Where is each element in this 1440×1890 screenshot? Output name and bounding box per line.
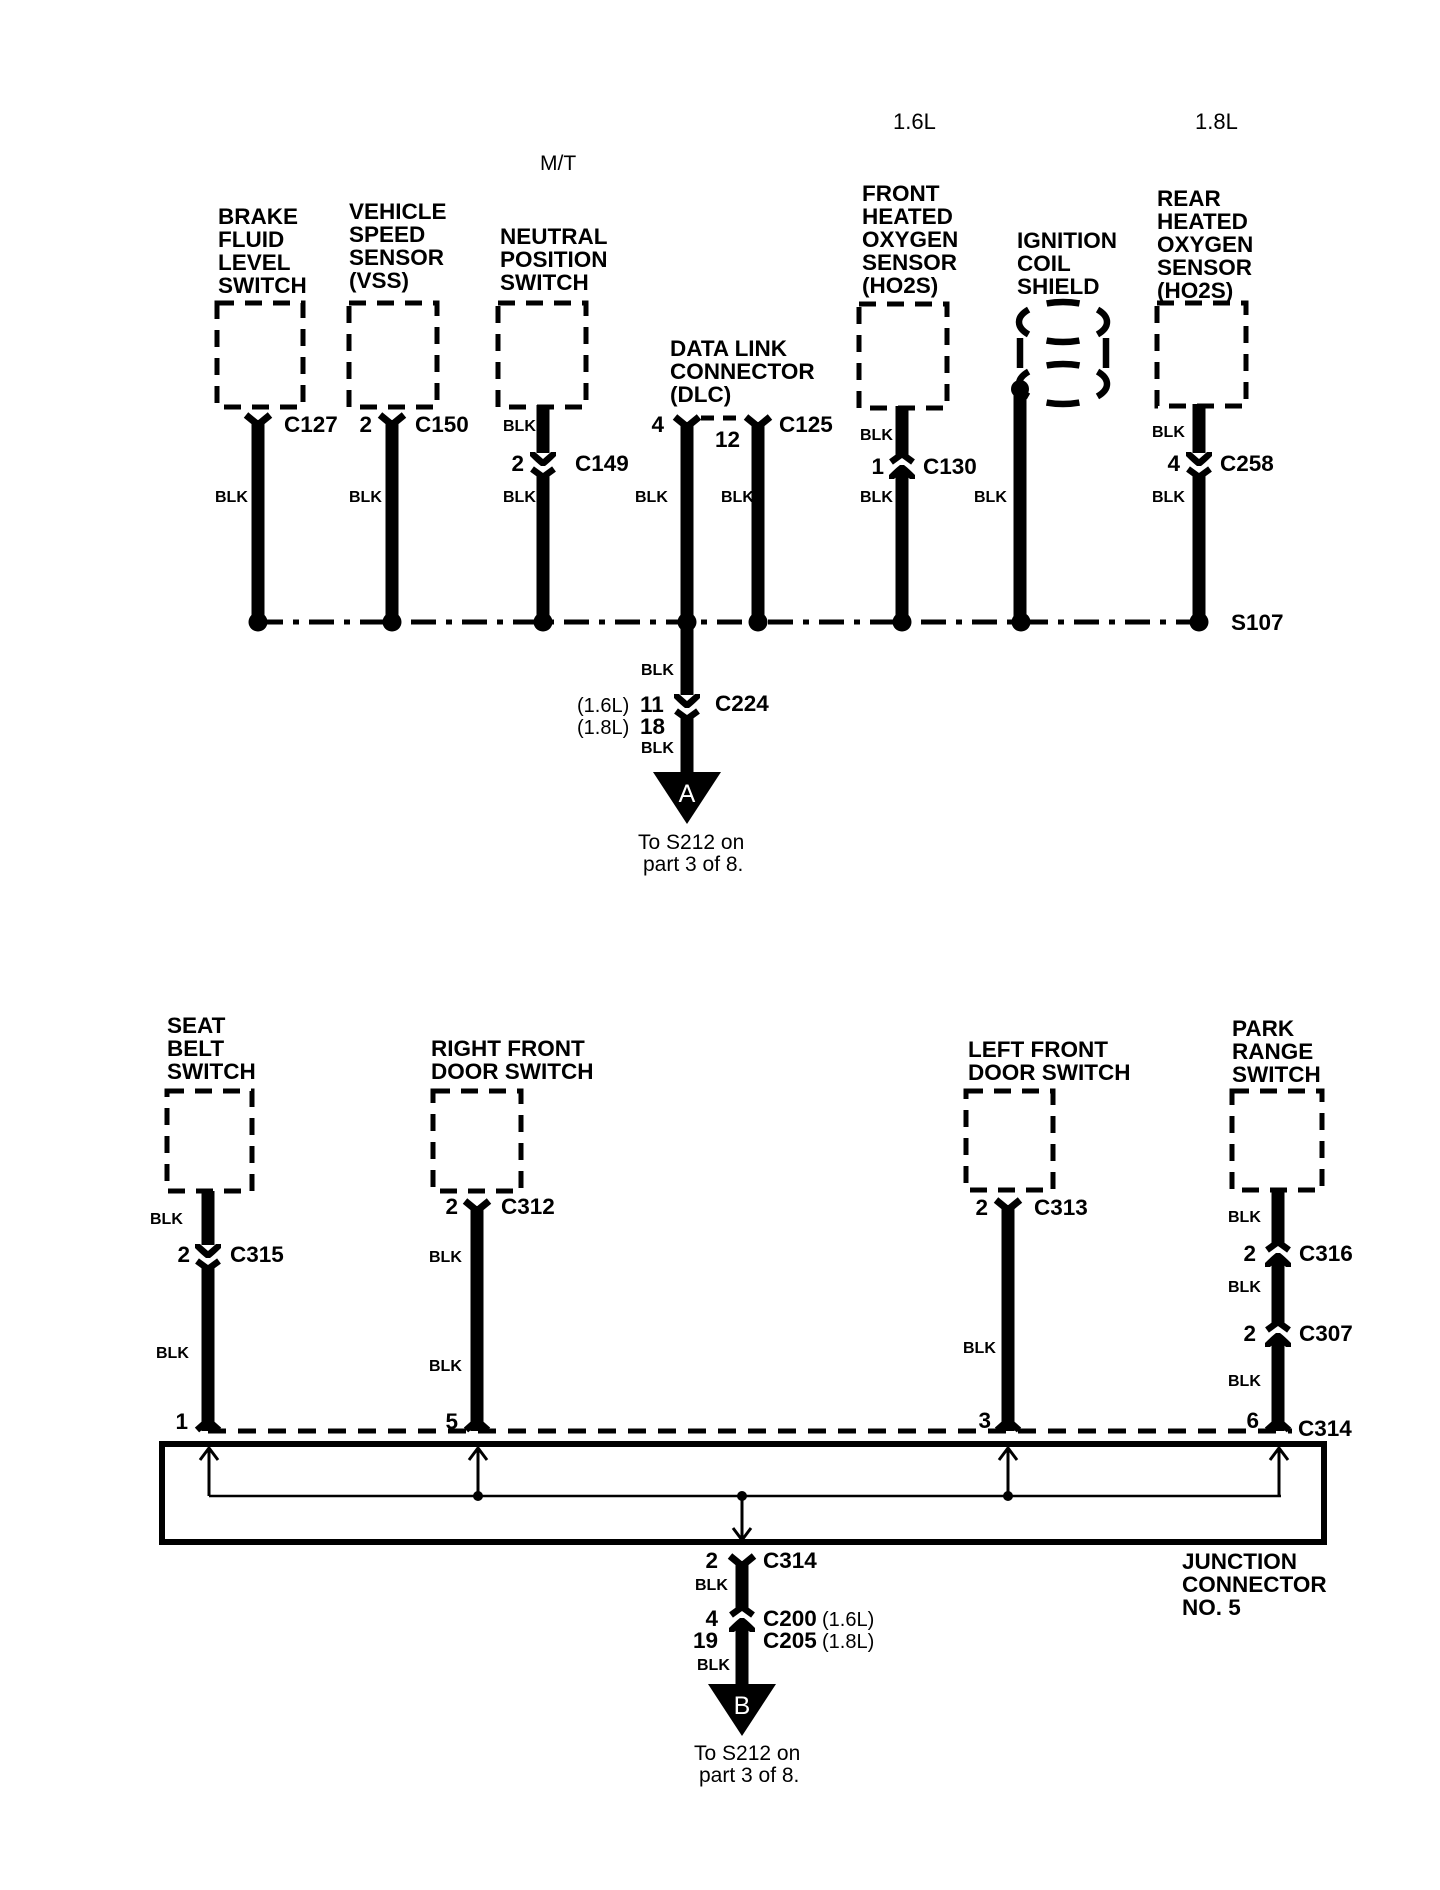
svg-text:1.8L: 1.8L [1195,109,1238,134]
svg-text:FLUID: FLUID [218,227,284,252]
svg-text:SWITCH: SWITCH [1232,1062,1321,1087]
svg-text:RANGE: RANGE [1232,1039,1313,1064]
svg-text:B: B [734,1692,751,1720]
svg-text:BLK: BLK [1228,1209,1261,1226]
svg-text:PARK: PARK [1232,1016,1295,1041]
svg-text:BLK: BLK [974,489,1007,506]
svg-text:12: 12 [715,427,740,452]
svg-text:2: 2 [177,1242,190,1267]
svg-text:2: 2 [359,412,372,437]
svg-text:BLK: BLK [503,489,536,506]
svg-text:(1.8L): (1.8L) [577,717,629,739]
svg-text:BLK: BLK [215,489,248,506]
svg-text:OXYGEN: OXYGEN [862,227,958,252]
svg-text:C313: C313 [1034,1195,1088,1220]
svg-text:CONNECTOR: CONNECTOR [670,359,815,384]
svg-text:C314: C314 [763,1548,817,1573]
svg-text:2: 2 [705,1548,718,1573]
svg-text:To S212 on: To S212 on [638,831,744,854]
svg-text:BLK: BLK [721,489,754,506]
svg-text:BLK: BLK [641,740,674,757]
svg-text:2: 2 [445,1194,458,1219]
svg-text:DOOR SWITCH: DOOR SWITCH [431,1059,594,1084]
svg-text:BLK: BLK [860,489,893,506]
svg-text:2: 2 [975,1195,988,1220]
svg-text:BLK: BLK [1228,1279,1261,1296]
svg-text:OXYGEN: OXYGEN [1157,232,1253,257]
svg-text:(HO2S): (HO2S) [1157,278,1233,303]
svg-text:SWITCH: SWITCH [167,1059,256,1084]
svg-text:SWITCH: SWITCH [500,270,589,295]
svg-text:HEATED: HEATED [862,204,953,229]
svg-text:19: 19 [693,1628,718,1653]
svg-text:BLK: BLK [429,1358,462,1375]
svg-text:BLK: BLK [349,489,382,506]
svg-text:JUNCTION: JUNCTION [1182,1549,1297,1574]
svg-text:SEAT: SEAT [167,1013,226,1038]
svg-text:DATA LINK: DATA LINK [670,336,788,361]
svg-text:BLK: BLK [695,1577,728,1594]
svg-text:C149: C149 [575,451,629,476]
svg-text:BLK: BLK [860,427,893,444]
svg-text:C125: C125 [779,412,833,437]
svg-text:part 3 of 8.: part 3 of 8. [699,1764,799,1787]
svg-text:C205: C205 [763,1628,817,1653]
svg-text:REAR: REAR [1157,186,1221,211]
svg-text:HEATED: HEATED [1157,209,1248,234]
svg-text:C312: C312 [501,1194,555,1219]
svg-text:SWITCH: SWITCH [218,273,307,298]
svg-text:BLK: BLK [635,489,668,506]
svg-text:C127: C127 [284,412,338,437]
svg-text:SPEED: SPEED [349,222,425,247]
svg-text:M/T: M/T [540,152,576,175]
svg-text:BLK: BLK [641,662,674,679]
svg-text:IGNITION: IGNITION [1017,228,1117,253]
svg-text:C316: C316 [1299,1241,1353,1266]
svg-text:C258: C258 [1220,451,1274,476]
svg-text:VEHICLE: VEHICLE [349,199,447,224]
svg-text:C224: C224 [715,691,769,716]
svg-text:SENSOR: SENSOR [349,245,444,270]
svg-text:CONNECTOR: CONNECTOR [1182,1572,1327,1597]
svg-text:NO. 5: NO. 5 [1182,1595,1241,1620]
svg-text:BLK: BLK [1228,1373,1261,1390]
svg-text:(1.6L): (1.6L) [577,695,629,717]
svg-text:A: A [679,780,696,808]
svg-text:BLK: BLK [963,1340,996,1357]
svg-text:BELT: BELT [167,1036,224,1061]
svg-text:4: 4 [651,412,664,437]
svg-text:C130: C130 [923,454,977,479]
svg-text:POSITION: POSITION [500,247,608,272]
svg-text:BLK: BLK [156,1345,189,1362]
svg-text:LEVEL: LEVEL [218,250,291,275]
svg-text:BLK: BLK [1152,424,1185,441]
svg-text:18: 18 [640,714,665,739]
svg-text:C150: C150 [415,412,469,437]
svg-text:SHIELD: SHIELD [1017,274,1100,299]
svg-text:(DLC): (DLC) [670,382,731,407]
svg-text:LEFT FRONT: LEFT FRONT [968,1037,1108,1062]
svg-text:2: 2 [1243,1321,1256,1346]
svg-text:BLK: BLK [697,1657,730,1674]
svg-text:1.6L: 1.6L [893,109,936,134]
svg-text:1: 1 [871,454,884,479]
svg-text:FRONT: FRONT [862,181,940,206]
svg-text:part 3 of 8.: part 3 of 8. [643,853,743,876]
svg-text:1: 1 [175,1409,188,1434]
svg-text:BLK: BLK [1152,489,1185,506]
svg-text:DOOR SWITCH: DOOR SWITCH [968,1060,1131,1085]
svg-text:C314: C314 [1298,1416,1352,1441]
svg-text:C307: C307 [1299,1321,1353,1346]
svg-text:2: 2 [1243,1241,1256,1266]
svg-text:2: 2 [511,451,524,476]
svg-text:COIL: COIL [1017,251,1071,276]
svg-text:RIGHT FRONT: RIGHT FRONT [431,1036,585,1061]
svg-text:BLK: BLK [150,1211,183,1228]
svg-text:6: 6 [1246,1408,1259,1433]
svg-text:(HO2S): (HO2S) [862,273,938,298]
svg-text:SENSOR: SENSOR [1157,255,1252,280]
svg-text:BLK: BLK [429,1249,462,1266]
svg-text:BRAKE: BRAKE [218,204,298,229]
svg-text:(1.6L): (1.6L) [822,1609,874,1631]
svg-text:4: 4 [1167,451,1180,476]
svg-text:SENSOR: SENSOR [862,250,957,275]
svg-text:S107: S107 [1231,610,1284,635]
svg-text:To S212 on: To S212 on [694,1742,800,1765]
svg-text:C315: C315 [230,1242,284,1267]
svg-text:NEUTRAL: NEUTRAL [500,224,608,249]
svg-text:(1.8L): (1.8L) [822,1631,874,1653]
svg-text:(VSS): (VSS) [349,268,409,293]
svg-text:BLK: BLK [503,418,536,435]
